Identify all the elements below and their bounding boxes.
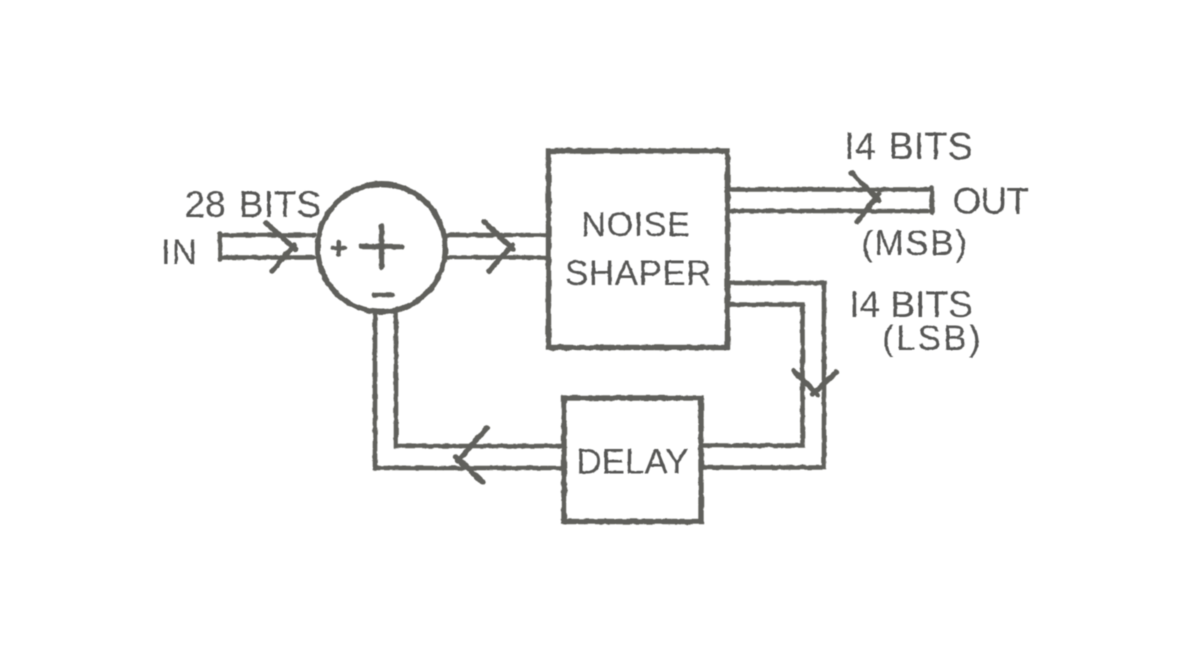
block DELAY	[564, 398, 701, 522]
label 14 BITS (MSB bus)	[844, 126, 973, 168]
arrow chevron summer to noise shaper	[484, 222, 514, 272]
block NOISE SHAPER	[549, 151, 728, 348]
label (LSB)	[882, 319, 982, 358]
svg-text:DELAY: DELAY	[576, 443, 688, 482]
svg-text:SHAPER: SHAPER	[565, 254, 712, 293]
summing junction circle	[318, 184, 446, 312]
svg-text:NOISE: NOISE	[581, 206, 690, 244]
label SHAPER	[565, 254, 712, 293]
minus sign (feedback polarity)	[374, 293, 393, 298]
arrow chevron down on LSB bus	[794, 371, 837, 395]
svg-text:28 BITS: 28 BITS	[185, 184, 322, 225]
label 28 BITS	[185, 184, 322, 225]
wire LSB output bus from noise shaper down to delay	[701, 283, 824, 468]
label 14 BITS (LSB bus)	[849, 284, 972, 325]
arrow chevron on MSB output bus	[852, 173, 880, 222]
arrow chevron left on feedback bus	[456, 428, 487, 483]
label IN	[161, 233, 198, 272]
wire summing junction to noise shaper	[448, 235, 548, 258]
label OUT	[953, 181, 1029, 222]
wire MSB output bus to OUT	[728, 188, 933, 214]
label DELAY	[576, 443, 688, 482]
svg-text:IN: IN	[161, 233, 198, 272]
svg-text:OUT: OUT	[953, 181, 1029, 222]
plus sign (input polarity)	[333, 242, 345, 255]
plus sign (center of summer)	[361, 226, 402, 267]
wire feedback bus delay to summing junction	[375, 313, 564, 468]
svg-text:(MSB): (MSB)	[861, 224, 968, 263]
svg-text:I4 BITS: I4 BITS	[844, 126, 973, 168]
svg-text:(LSB): (LSB)	[882, 319, 982, 358]
wire input bus IN to summing junction	[220, 233, 314, 260]
label NOISE	[581, 206, 690, 244]
arrow chevron on input bus	[266, 223, 296, 271]
label (MSB)	[861, 224, 968, 263]
